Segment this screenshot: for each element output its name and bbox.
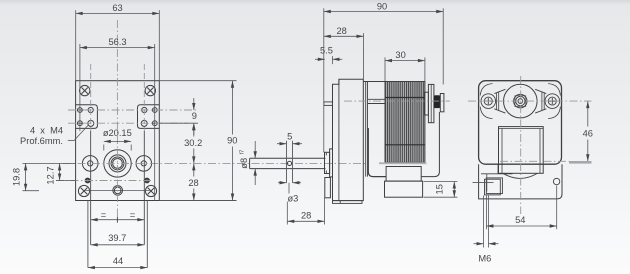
svg-text:9: 9	[192, 111, 197, 121]
svg-text:46: 46	[583, 129, 593, 139]
M4 hole top-right-inner	[142, 107, 147, 112]
dimension 28 left view	[193, 163, 195, 176]
rotor circle	[504, 84, 538, 118]
bracket foot rear	[479, 164, 562, 199]
svg-text:ø8: ø8	[239, 158, 249, 169]
dimension equal spacing	[91, 219, 145, 221]
rear screw right ear	[545, 94, 560, 109]
output shaft inner circle	[113, 159, 123, 169]
boss flange side view	[330, 149, 333, 177]
dimension 63	[76, 12, 160, 14]
rear screw right	[548, 97, 556, 105]
rear screw left	[484, 97, 492, 105]
slot line right	[143, 131, 145, 245]
stator stack side view	[385, 82, 425, 163]
screw bottom-right	[145, 185, 156, 196]
gearbox front view body	[76, 81, 160, 201]
gearbox face rib	[324, 102, 333, 106]
screw top-left	[80, 85, 90, 95]
extension line hole row bottom right	[159, 122, 198, 124]
svg-text:19.8: 19.8	[12, 168, 22, 186]
bottom center boss	[113, 186, 123, 196]
svg-text:28: 28	[301, 210, 311, 220]
corner arc bottom-right	[548, 107, 560, 119]
motor rear body	[479, 81, 562, 165]
stack inner line upper	[385, 97, 425, 99]
bearing ring outer	[514, 94, 527, 107]
output shaft side view	[250, 157, 326, 159]
motor end bell plates	[365, 82, 367, 177]
bearing square	[515, 96, 526, 107]
centerline vertical left view	[116, 20, 118, 222]
coil winding arc	[503, 173, 538, 178]
centerline vertical right view	[520, 76, 522, 214]
label D3	[288, 183, 290, 194]
lower boss side view	[325, 178, 331, 198]
svg-text:39.7: 39.7	[108, 233, 126, 243]
dimension 56.3	[80, 47, 155, 49]
gearbox side view body	[333, 79, 364, 200]
screw bottom-left	[78, 185, 89, 196]
svg-text:44: 44	[113, 256, 123, 266]
leg left outer line	[87, 201, 89, 268]
dimension 5.5	[315, 58, 325, 60]
bracket strap side view	[368, 128, 386, 177]
svg-text:5: 5	[287, 132, 292, 142]
coil bobbin side lower	[385, 181, 423, 197]
dimension 19.8	[25, 163, 27, 190]
svg-text:Prof.6mm.: Prof.6mm.	[20, 136, 63, 146]
mounting plate right	[138, 105, 160, 129]
gearbox body bottom edge extension to 90-dim	[159, 200, 236, 202]
output shaft circle	[111, 157, 124, 170]
output boss ring	[109, 155, 126, 172]
shaft keyway lines	[286, 141, 288, 183]
keyway lower arrows	[278, 182, 287, 184]
screw top-right	[145, 85, 155, 95]
M4 hole bottom-right-inner	[141, 120, 147, 126]
centerline hole row top	[68, 109, 198, 111]
M4 hole bottom-left-inner	[88, 120, 94, 126]
corner arc top-left	[480, 84, 492, 96]
shaft cross hole D3	[287, 161, 291, 165]
dimension 30	[385, 60, 425, 62]
coil bobbin side upper	[386, 167, 421, 182]
screw row line	[84, 189, 151, 191]
corner arc bottom-left	[480, 107, 492, 119]
dimension 28 bottom	[287, 220, 324, 222]
svg-text:5.5: 5.5	[320, 45, 333, 55]
svg-text:63: 63	[112, 3, 122, 13]
M4 hole top-left-outer	[78, 108, 83, 113]
small hole lower-left	[85, 178, 91, 184]
bolt washer plate	[424, 92, 428, 115]
dimension 28 middle	[324, 35, 364, 37]
dimension 30.2	[193, 125, 195, 137]
dimension 46	[587, 101, 589, 126]
gearbox side inner line	[338, 79, 340, 200]
svg-text:30: 30	[395, 50, 405, 60]
centerline hole row bottom	[68, 122, 188, 124]
svg-text:90: 90	[377, 1, 387, 11]
foot hole	[553, 178, 559, 184]
svg-text:15: 15	[434, 184, 444, 194]
bolt tip plate	[440, 94, 444, 112]
bearing ring mid	[516, 96, 525, 105]
dimension D8 f7	[254, 141, 256, 158]
stack bottom band	[379, 162, 427, 164]
centerline motor axis right	[468, 100, 592, 102]
motor shaft stub	[368, 98, 385, 100]
M4 hole bottom-right-outer	[152, 121, 157, 126]
slot line left	[90, 131, 92, 245]
stack inner line lower	[385, 144, 425, 146]
dimension 90 left view	[232, 81, 234, 135]
dimension 90 middle	[324, 11, 443, 13]
dimension 9	[193, 98, 195, 110]
centerline hole column left-inner	[90, 64, 92, 131]
gearbox body top edge extension to 90-dim	[159, 80, 236, 82]
bolt nut dark	[434, 95, 440, 108]
M6 tab square	[485, 179, 501, 195]
dimension 44	[88, 267, 147, 269]
svg-text:ø20.15: ø20.15	[103, 128, 132, 138]
corner arc top-right	[548, 84, 560, 96]
output boss circle D20.15	[104, 150, 131, 177]
svg-text:30.2: 30.2	[184, 138, 202, 148]
svg-text:12.7: 12.7	[46, 166, 56, 184]
svg-text:54: 54	[515, 215, 525, 225]
dimension 54	[486, 225, 556, 227]
svg-text:28: 28	[188, 178, 198, 188]
small hole lower-right	[144, 178, 150, 184]
shaft end rear	[518, 99, 523, 104]
svg-text:56.3: 56.3	[108, 37, 126, 47]
svg-text:28: 28	[337, 26, 347, 36]
dimension M6	[474, 243, 484, 245]
bearing hole left	[82, 156, 98, 172]
centerline motor axis middle	[344, 100, 450, 102]
gearbox side foot	[333, 201, 363, 204]
dimension 5 keyway	[277, 143, 287, 145]
coil bobbin rear	[499, 127, 544, 174]
centerline hole column left-outer	[79, 44, 81, 131]
M4 hole top-right-outer	[152, 108, 157, 113]
bolt outer plate	[428, 84, 434, 122]
svg-text:ø3: ø3	[287, 193, 298, 203]
centerline hole column right-outer	[154, 44, 156, 201]
leg right outer line	[146, 201, 148, 268]
svg-text:=: =	[101, 210, 106, 220]
svg-text:M6: M6	[478, 253, 491, 263]
bracket crease	[481, 173, 513, 175]
wing left	[494, 89, 505, 93]
centerline hole column right-inner	[143, 64, 145, 131]
shaft boss side view	[325, 152, 330, 173]
centerline horizontal main	[63, 162, 368, 164]
wing right	[535, 89, 546, 93]
svg-text:90: 90	[227, 136, 237, 146]
mounting plate left	[76, 105, 98, 129]
dimension D20.15	[104, 140, 131, 142]
dimension 39.7	[91, 244, 145, 246]
M6 hole cross	[473, 181, 494, 183]
bearing hole right	[136, 156, 152, 172]
svg-text:=: =	[130, 210, 135, 220]
dimension 15	[453, 182, 455, 198]
M4 hole bottom-left-outer	[78, 121, 83, 126]
dimension 12.7	[59, 163, 61, 180]
svg-text:f7: f7	[239, 150, 245, 155]
M4 hole top-left-inner	[88, 107, 93, 112]
rear screw left ear	[481, 94, 496, 109]
svg-text:4 x M4: 4 x M4	[30, 126, 63, 136]
centerline lower hole row	[56, 180, 152, 182]
